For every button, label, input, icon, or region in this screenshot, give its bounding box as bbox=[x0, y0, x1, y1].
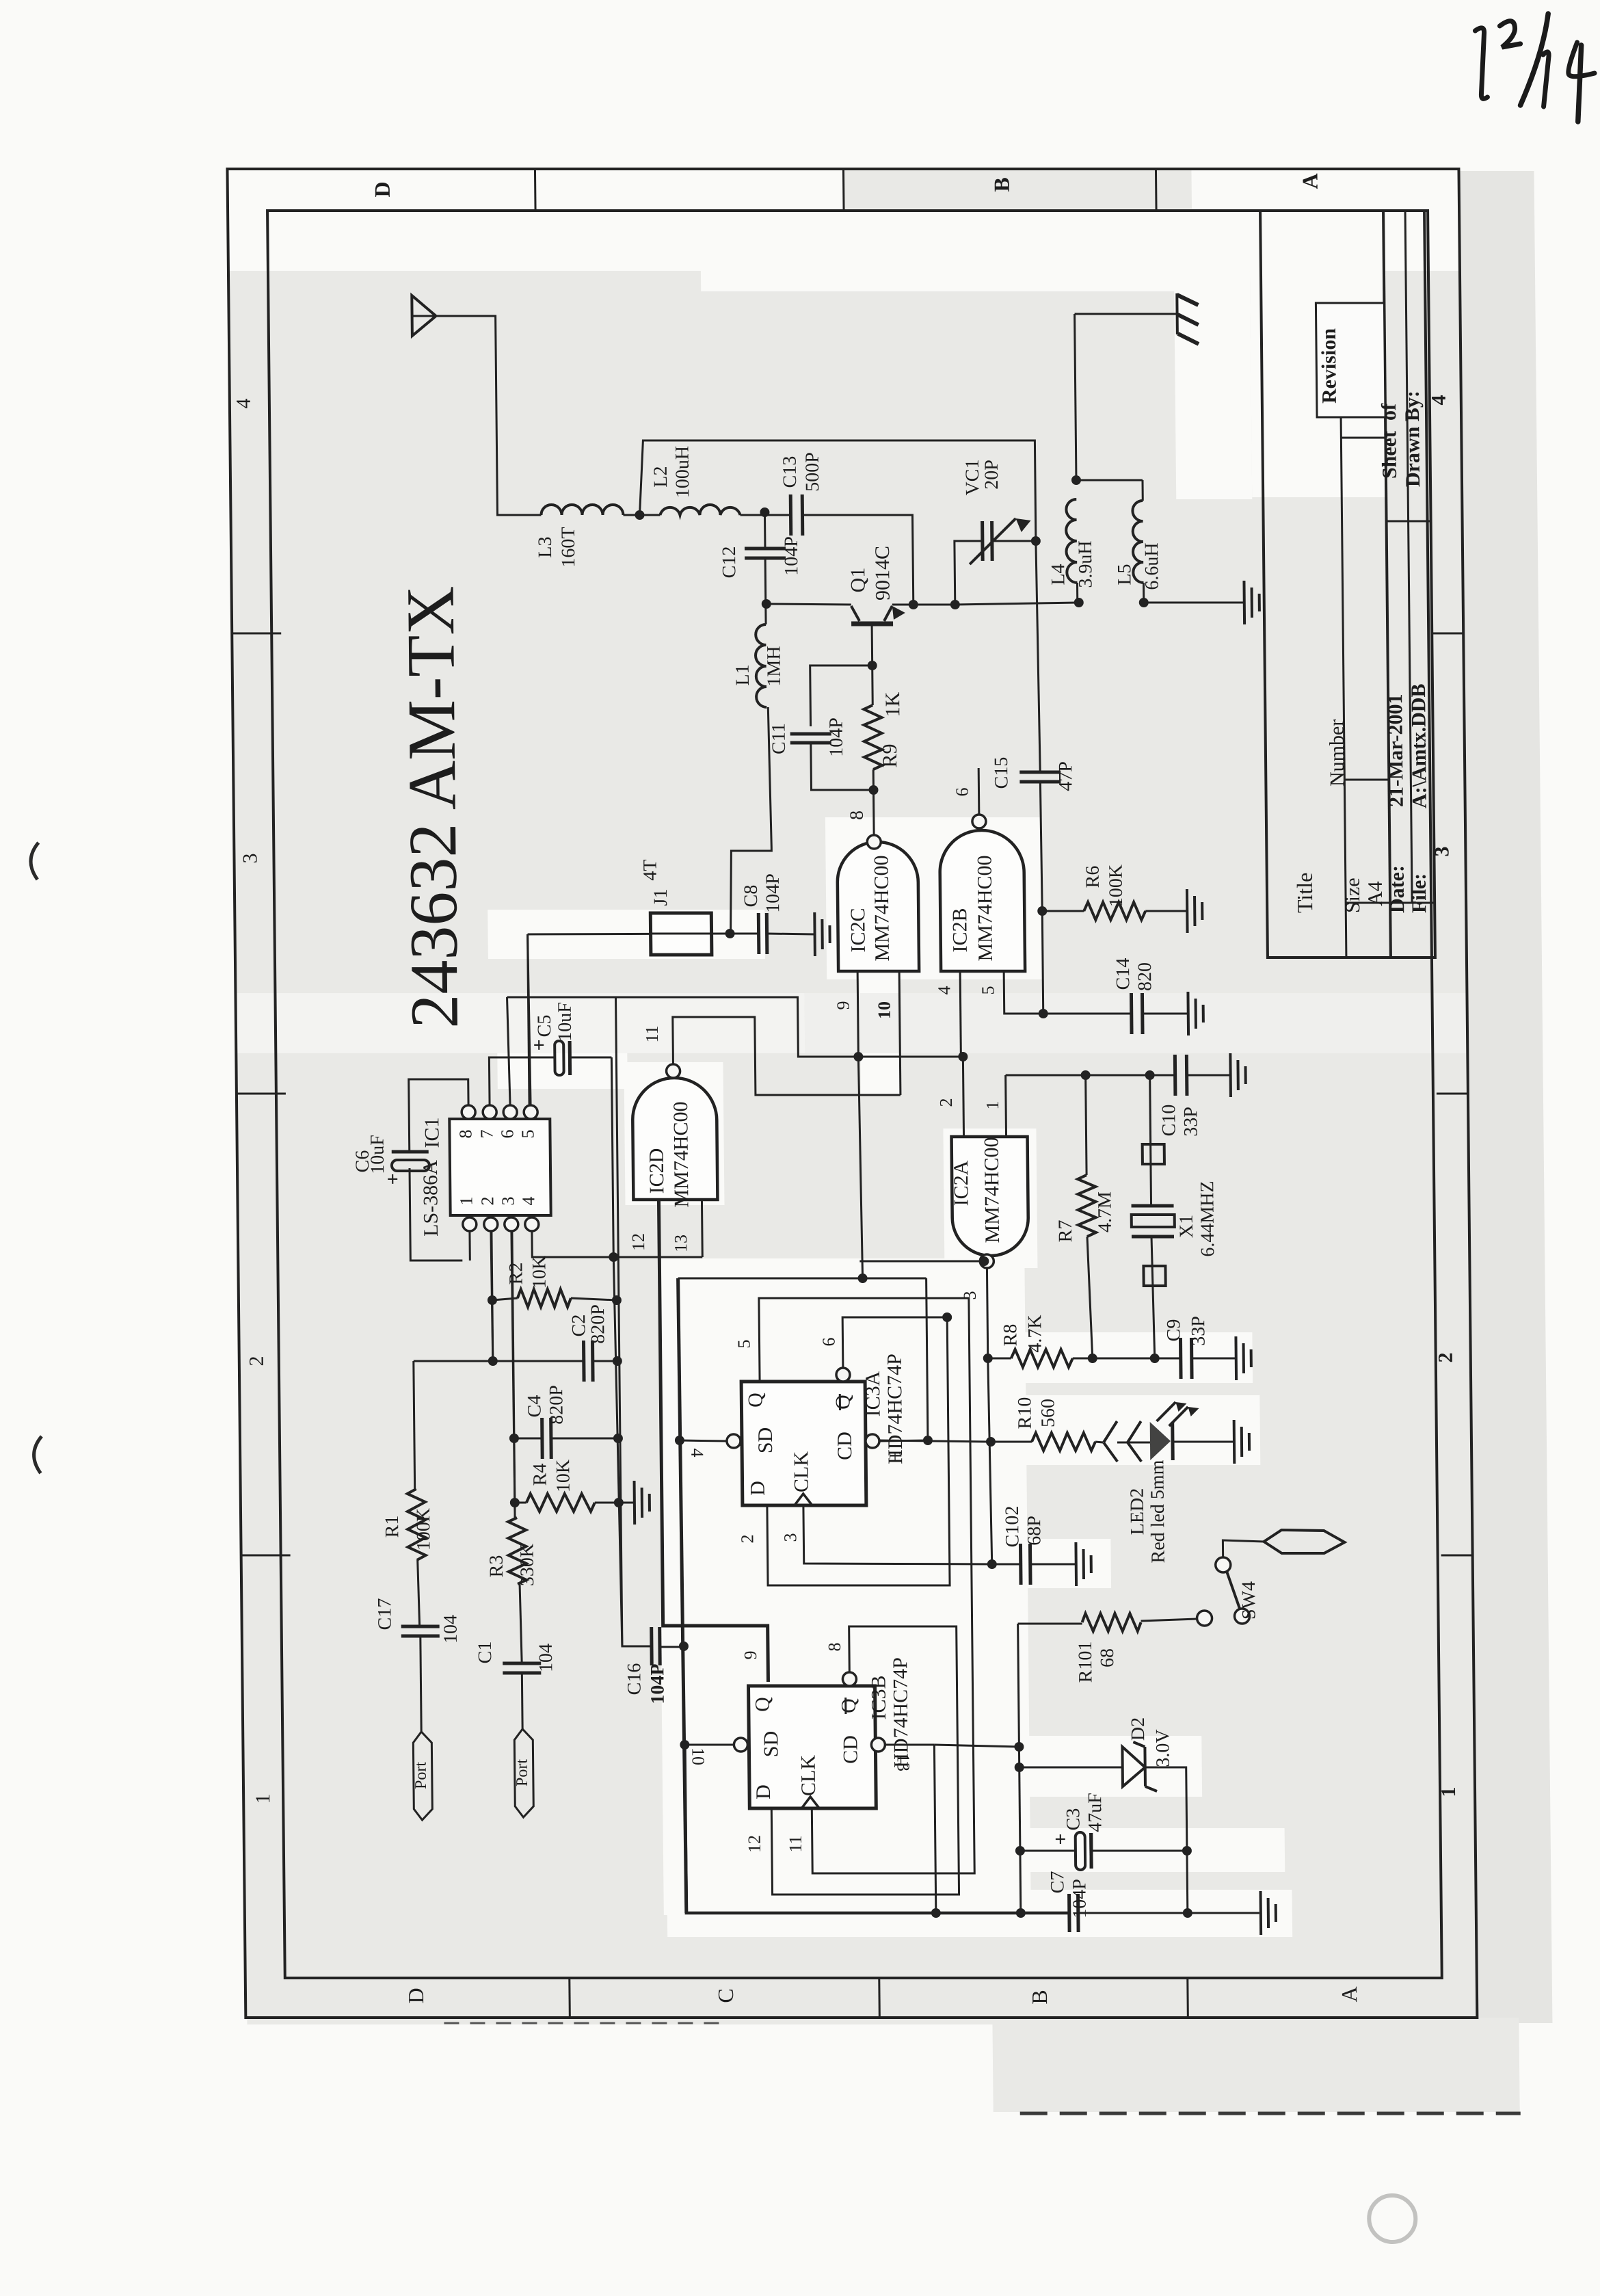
svg-text:R7: R7 bbox=[1055, 1220, 1076, 1243]
handwritten page number 12/14 bbox=[1475, 14, 1595, 122]
svg-text:IC1: IC1 bbox=[421, 1118, 443, 1148]
svg-text:11: 11 bbox=[786, 1835, 805, 1852]
svg-text:SW4: SW4 bbox=[1238, 1581, 1260, 1620]
wire to X1 top bbox=[1086, 1074, 1150, 1077]
junction VC1 drop bbox=[950, 600, 960, 609]
ground output rail bbox=[1242, 581, 1246, 624]
svg-text:9014C: 9014C bbox=[871, 546, 894, 601]
inductor L4 bbox=[1066, 499, 1078, 583]
svg-text:A4: A4 bbox=[1364, 881, 1387, 906]
title block col line B bbox=[1344, 779, 1389, 781]
ground R4 row bbox=[633, 1481, 637, 1525]
wire Q6bar loop bbox=[842, 1317, 948, 1368]
wire VC1 left lead bbox=[955, 541, 983, 605]
svg-text:C11: C11 bbox=[769, 723, 790, 754]
svg-text:Date:: Date: bbox=[1386, 865, 1409, 913]
capacitor C12 bbox=[745, 547, 786, 551]
svg-text:6.6uH: 6.6uH bbox=[1141, 542, 1163, 590]
svg-text:C5: C5 bbox=[534, 1015, 555, 1038]
wire IC2D pin12 long bbox=[658, 1200, 768, 1682]
svg-text:CLK: CLK bbox=[790, 1451, 813, 1492]
frame outer border bbox=[227, 169, 1477, 2018]
svg-text:Red led 5mm: Red led 5mm bbox=[1147, 1460, 1169, 1563]
junction cd13 bottom bbox=[931, 1908, 941, 1918]
svg-text:D: D bbox=[747, 1481, 769, 1496]
svg-text:CD: CD bbox=[834, 1431, 856, 1460]
zone divider right band bbox=[534, 169, 537, 211]
resistor R101 bbox=[1018, 1623, 1082, 1625]
svg-text:C2: C2 bbox=[568, 1315, 589, 1337]
svg-text:4.7M: 4.7M bbox=[1094, 1191, 1116, 1232]
svg-text:J1: J1 bbox=[650, 889, 671, 906]
junction R7 top bbox=[1081, 1070, 1091, 1080]
inductor L2 bbox=[660, 505, 740, 515]
bubble CD ic3b bbox=[871, 1738, 885, 1752]
junction R9 bottom bbox=[868, 785, 878, 795]
svg-text:13: 13 bbox=[671, 1235, 691, 1252]
title block row line 1 bbox=[1341, 417, 1346, 958]
svg-text:2: 2 bbox=[936, 1098, 956, 1107]
resistor R1 bbox=[414, 1361, 415, 1489]
wire CD13 bbox=[885, 1744, 934, 1746]
junction Q1 base bbox=[868, 661, 877, 670]
svg-text:10K: 10K bbox=[552, 1460, 574, 1492]
wire ic1 pin6 up bbox=[507, 997, 511, 1105]
resistor R8 bbox=[988, 1358, 1011, 1360]
ground C10 bbox=[1229, 1053, 1232, 1097]
nand gate IC2B bbox=[939, 830, 1025, 971]
junction c2 left bbox=[488, 1356, 498, 1366]
svg-text:4.7K: 4.7K bbox=[1024, 1315, 1046, 1352]
wire ic1 pin5 up bbox=[528, 934, 531, 1105]
svg-text:D: D bbox=[370, 181, 395, 197]
svg-text:C16: C16 bbox=[624, 1663, 645, 1695]
bubble Q6 ic3a bbox=[836, 1368, 850, 1382]
svg-text:Drawn By:: Drawn By: bbox=[1401, 391, 1424, 487]
capacitor C15 bbox=[1019, 771, 1061, 774]
capacitor C4 bbox=[514, 1438, 542, 1440]
wire right v down bbox=[1186, 1851, 1188, 1913]
wire IC2B pin4 stub bbox=[960, 971, 961, 1057]
wire C12 top bbox=[764, 515, 766, 549]
svg-text:1: 1 bbox=[885, 1451, 905, 1460]
junction IC2C pin9 bbox=[853, 1052, 863, 1061]
svg-text:104P: 104P bbox=[825, 717, 847, 757]
wire pin3 net bbox=[512, 1231, 515, 1518]
port connector Port1 bbox=[413, 1732, 432, 1820]
wire bottom rail left bbox=[684, 1745, 1069, 1913]
scanned page gray area bbox=[230, 271, 1478, 2024]
wire C13 to collector drop bbox=[802, 515, 913, 605]
wire c5 net down bbox=[613, 1257, 622, 1646]
svg-text:Title: Title bbox=[1292, 873, 1318, 913]
capacitor C2 bbox=[493, 1360, 584, 1362]
svg-text:7: 7 bbox=[477, 1130, 496, 1139]
svg-text:6: 6 bbox=[497, 1130, 517, 1139]
wire emitter rail bbox=[766, 604, 851, 605]
wire X1 net to C10 bbox=[1150, 1074, 1175, 1077]
junction CD1 V1 bbox=[923, 1436, 933, 1445]
antenna ANT bbox=[412, 295, 436, 336]
wire J1 row bbox=[528, 934, 730, 934]
wire Q8bar loop bbox=[770, 1626, 959, 1895]
junction r4 left bbox=[510, 1498, 520, 1507]
svg-text:LED2: LED2 bbox=[1127, 1488, 1149, 1535]
junction c7 right node bbox=[1183, 1908, 1192, 1918]
wire py1545 to IC2B pin4 bbox=[858, 1056, 961, 1058]
wire pin2 net bbox=[492, 1231, 493, 1361]
wire CD1 net bbox=[879, 1440, 989, 1442]
battery hexagon bbox=[1264, 1530, 1344, 1553]
wire set net top bbox=[678, 1278, 926, 1280]
svg-text:1: 1 bbox=[456, 1197, 476, 1206]
svg-text:4T: 4T bbox=[640, 859, 661, 880]
svg-text:IC3A: IC3A bbox=[862, 1371, 885, 1416]
svg-text:HD74HC74P: HD74HC74P bbox=[889, 1657, 913, 1768]
title block outline bbox=[1260, 211, 1435, 958]
svg-text:33P: 33P bbox=[1180, 1107, 1201, 1137]
wire SW4 to battery bbox=[1223, 1540, 1264, 1557]
svg-text:21-Mar-2001: 21-Mar-2001 bbox=[1384, 694, 1408, 807]
svg-text:47uF: 47uF bbox=[1084, 1793, 1106, 1832]
audio amp IC1 bbox=[449, 1119, 550, 1215]
wire ic1 pin4 down bbox=[532, 1231, 613, 1257]
junction R8 right bbox=[1088, 1354, 1097, 1363]
capacitor C14 bbox=[1043, 1013, 1132, 1015]
svg-text:Size: Size bbox=[1342, 878, 1365, 913]
svg-text:A:\Amtx.DDB: A:\Amtx.DDB bbox=[1407, 684, 1431, 808]
svg-text:500P: 500P bbox=[802, 452, 824, 492]
junction SD4 set net bbox=[675, 1436, 684, 1445]
svg-text:2: 2 bbox=[737, 1535, 757, 1544]
junction R8 left bbox=[983, 1354, 993, 1363]
zone divider top bbox=[232, 633, 281, 635]
junction L2/C12 bbox=[760, 507, 769, 517]
svg-text:820P: 820P bbox=[587, 1304, 609, 1344]
svg-text:C15: C15 bbox=[991, 757, 1012, 789]
ground C9 bbox=[1234, 1336, 1238, 1380]
flip-flop IC3A bbox=[741, 1382, 866, 1505]
wire cd13 drop bbox=[934, 1745, 935, 1913]
capacitor C102 bbox=[992, 1563, 1021, 1566]
junction L3/L2 bbox=[635, 510, 644, 520]
wire c3 row bbox=[1020, 1850, 1074, 1852]
switch SW4 bbox=[1216, 1557, 1231, 1572]
wire ic2c9 drop tail bbox=[926, 1278, 928, 1440]
wire C12 bottom bbox=[764, 558, 767, 604]
svg-text:File:: File: bbox=[1408, 873, 1431, 913]
svg-text:R6: R6 bbox=[1082, 866, 1104, 888]
wire IC2B pin6 stub bbox=[978, 768, 981, 815]
svg-text:160T: 160T bbox=[558, 527, 580, 567]
junction py1545 right bbox=[958, 1052, 968, 1061]
svg-text:B: B bbox=[1027, 1990, 1052, 2004]
wire C11 bottom bbox=[811, 743, 874, 790]
junction c3 left bbox=[1015, 1846, 1025, 1856]
wire J1 left riser bbox=[528, 934, 529, 1105]
svg-text:IC3B: IC3B bbox=[867, 1675, 890, 1719]
svg-text:SD: SD bbox=[754, 1427, 777, 1453]
svg-text:5: 5 bbox=[734, 1340, 754, 1349]
svg-text:330K: 330K bbox=[516, 1544, 538, 1586]
wire IC2B pin5 link bbox=[1004, 971, 1043, 1014]
title block col line A bbox=[1346, 902, 1435, 904]
junction L4 top bbox=[1071, 475, 1081, 485]
underlying sheet edge dashes bbox=[1020, 2112, 1521, 2115]
svg-text:10K: 10K bbox=[529, 1256, 550, 1289]
capacitor C1 bbox=[503, 1662, 541, 1665]
junction L4 bottom bbox=[1074, 598, 1084, 607]
ground R6 bbox=[1186, 889, 1189, 933]
svg-text:8: 8 bbox=[846, 810, 868, 820]
junction C12/L1 bbox=[762, 599, 771, 609]
svg-text:D2: D2 bbox=[1128, 1717, 1149, 1741]
zone divider left band bbox=[568, 1978, 571, 2018]
svg-text:8: 8 bbox=[455, 1130, 475, 1139]
wire L2 to C13 bbox=[740, 514, 790, 516]
junction V1 CLK bbox=[987, 1559, 997, 1569]
svg-text:6.44MHZ: 6.44MHZ bbox=[1197, 1180, 1218, 1256]
wire R6 to C14 junction bbox=[1042, 911, 1043, 1014]
wire set net vertical bbox=[678, 1278, 686, 1913]
capacitor C5 electrolytic bbox=[555, 1041, 563, 1075]
svg-text:IC2D: IC2D bbox=[645, 1148, 669, 1194]
punch hole arc upper bbox=[31, 843, 39, 880]
pin circles IC1 top bbox=[462, 1105, 475, 1119]
junction r4 right bbox=[614, 1498, 624, 1507]
svg-text:R2: R2 bbox=[505, 1263, 526, 1285]
wire d2 net vertical bbox=[1019, 1747, 1020, 1913]
capacitor C3 electrolytic bbox=[1076, 1832, 1086, 1870]
junction Q1 collector bbox=[909, 600, 918, 609]
title block row line 3 bbox=[1405, 211, 1412, 903]
resistor R6 bbox=[1042, 910, 1084, 912]
svg-text:820: 820 bbox=[1134, 962, 1156, 991]
svg-text:100K: 100K bbox=[413, 1508, 435, 1551]
svg-text:3.0V: 3.0V bbox=[1152, 1729, 1174, 1767]
svg-text:3: 3 bbox=[498, 1197, 518, 1206]
wire c5 right down bbox=[611, 1057, 613, 1257]
svg-text:R3: R3 bbox=[486, 1555, 507, 1578]
wire pin9 down long bbox=[858, 1057, 862, 1278]
svg-text:243632 AM-TX: 243632 AM-TX bbox=[392, 585, 472, 1028]
flip-flop IC3B bbox=[749, 1686, 877, 1808]
svg-text:4: 4 bbox=[232, 399, 255, 409]
svg-text:9: 9 bbox=[741, 1651, 760, 1660]
svg-text:C: C bbox=[713, 1988, 738, 2003]
svg-text:CD: CD bbox=[839, 1735, 862, 1764]
svg-text:104P: 104P bbox=[762, 873, 784, 913]
svg-text:5: 5 bbox=[978, 986, 998, 995]
junction r2 right bbox=[612, 1295, 622, 1305]
svg-text:Port: Port bbox=[412, 1762, 430, 1789]
wire c1 to port bbox=[521, 1673, 524, 1729]
svg-text:A: A bbox=[1298, 173, 1322, 189]
bubble IC2C output bbox=[867, 835, 881, 849]
wire audio net H2 bbox=[507, 997, 859, 1057]
svg-text:MM74HC00: MM74HC00 bbox=[669, 1101, 693, 1207]
svg-text:R9: R9 bbox=[879, 743, 901, 767]
ground C14 bbox=[1186, 992, 1190, 1035]
junction c4 right bbox=[613, 1434, 623, 1443]
punch hole arc lower bbox=[34, 1436, 42, 1473]
wire LED2 to ground bbox=[1173, 1441, 1234, 1443]
svg-text:20P: 20P bbox=[981, 460, 1002, 490]
capacitor C13 bbox=[789, 494, 793, 536]
capacitor C7 bbox=[1067, 1894, 1071, 1932]
junction cd13 r101net bbox=[1014, 1742, 1024, 1752]
bubble IC2B output bbox=[972, 815, 986, 828]
svg-text:Q: Q bbox=[838, 1698, 860, 1713]
zener diode D2 bbox=[1122, 1747, 1145, 1786]
wire C15 to R6 bbox=[1040, 782, 1042, 911]
svg-text:R1: R1 bbox=[382, 1516, 403, 1538]
svg-text:Q: Q bbox=[831, 1395, 854, 1410]
wire r101 net bbox=[1018, 1624, 1019, 1747]
wire collector rail right bbox=[914, 604, 955, 606]
svg-text:Revision: Revision bbox=[1318, 328, 1341, 404]
svg-text:12: 12 bbox=[745, 1835, 764, 1853]
svg-text:R4: R4 bbox=[529, 1464, 550, 1486]
svg-text:4: 4 bbox=[518, 1197, 538, 1206]
wire SD10 to set net bbox=[684, 1744, 734, 1746]
svg-text:104: 104 bbox=[535, 1644, 557, 1672]
wire V1 clock net bbox=[988, 1358, 992, 1564]
svg-text:D: D bbox=[403, 1988, 428, 2003]
svg-text:3: 3 bbox=[780, 1533, 800, 1542]
resistor R3 bbox=[508, 1518, 526, 1584]
capacitor C17 bbox=[401, 1625, 440, 1628]
svg-text:13: 13 bbox=[894, 1754, 914, 1771]
clock wedge ic3b bbox=[801, 1797, 819, 1808]
svg-text:10: 10 bbox=[875, 1001, 894, 1019]
svg-text:C14: C14 bbox=[1112, 958, 1134, 990]
title block col line D bbox=[1341, 437, 1385, 439]
wire pin1 stub bbox=[468, 1231, 470, 1261]
svg-text:560: 560 bbox=[1037, 1399, 1058, 1427]
wire Q5 loop bbox=[759, 1298, 974, 1873]
wire d2 row bbox=[1019, 1767, 1123, 1769]
svg-text:C12: C12 bbox=[719, 546, 740, 579]
svg-text:C3: C3 bbox=[1063, 1808, 1084, 1831]
resistor R7 bbox=[1086, 1075, 1086, 1175]
nand gate IC2C bbox=[837, 842, 919, 971]
svg-text:3.9uH: 3.9uH bbox=[1075, 540, 1097, 588]
junction VC1 right bbox=[1031, 536, 1041, 546]
bubble SD ic3a bbox=[727, 1434, 741, 1448]
svg-text:12: 12 bbox=[628, 1233, 648, 1251]
transistor Q1 bbox=[851, 622, 893, 626]
svg-text:L3: L3 bbox=[535, 536, 556, 557]
svg-text:10: 10 bbox=[688, 1747, 708, 1765]
svg-text:104P: 104P bbox=[781, 536, 803, 576]
svg-text:HD74HC74P: HD74HC74P bbox=[883, 1354, 907, 1464]
wire C16 to set net bbox=[660, 1646, 684, 1648]
wire r1 top bbox=[414, 1360, 493, 1362]
wire VC1 right lead bbox=[992, 540, 1036, 542]
capacitor C16 bbox=[650, 1627, 654, 1665]
svg-text:1: 1 bbox=[252, 1794, 274, 1804]
svg-text:104P: 104P bbox=[647, 1663, 669, 1704]
wire IC2C pin9 stub bbox=[857, 971, 858, 1057]
svg-text:68P: 68P bbox=[1024, 1516, 1045, 1546]
svg-text:C13: C13 bbox=[779, 456, 801, 488]
wire q6 to D2 loop bbox=[765, 1317, 950, 1585]
wire junction to L2 bbox=[639, 514, 660, 516]
frame inner border bbox=[267, 211, 1442, 1978]
svg-text:C7: C7 bbox=[1047, 1871, 1068, 1894]
svg-text:VC1: VC1 bbox=[962, 460, 984, 496]
svg-text:L4: L4 bbox=[1048, 564, 1069, 585]
capacitor C8 bbox=[730, 933, 759, 935]
wire rail to L4 bbox=[955, 603, 1079, 605]
svg-text:MM74HC00: MM74HC00 bbox=[870, 855, 894, 961]
bubble SD ic3b bbox=[734, 1738, 747, 1752]
svg-text:+: + bbox=[1050, 1833, 1072, 1845]
wire vc1 net down bbox=[1036, 541, 1040, 772]
svg-text:100K: 100K bbox=[1106, 865, 1128, 907]
wire C16 left up bbox=[616, 997, 652, 1646]
svg-text:SD: SD bbox=[760, 1731, 782, 1757]
bubble CD ic3a bbox=[866, 1434, 879, 1448]
inductor L3 bbox=[541, 505, 623, 515]
crystal X1 bbox=[1150, 1075, 1151, 1206]
svg-text:IC2C: IC2C bbox=[846, 908, 870, 952]
svg-text:Q1: Q1 bbox=[846, 568, 869, 593]
faint stamp bbox=[1369, 2195, 1416, 2242]
wire c17 to port bbox=[421, 1636, 421, 1732]
wire antenna to L3 bbox=[436, 316, 542, 515]
wire d2 to right v bbox=[1145, 1767, 1187, 1851]
svg-text:6: 6 bbox=[818, 1338, 838, 1347]
svg-text:C1: C1 bbox=[475, 1641, 496, 1664]
junction C14 bbox=[1039, 1009, 1048, 1018]
wire hatch feed bbox=[1075, 313, 1177, 315]
svg-text:6: 6 bbox=[952, 788, 972, 797]
svg-text:C8: C8 bbox=[741, 885, 762, 908]
svg-text:Q: Q bbox=[751, 1697, 774, 1712]
svg-text:B: B bbox=[989, 177, 1014, 192]
wire CLK3 horizontal bbox=[803, 1503, 992, 1564]
junction c2 right bbox=[613, 1356, 622, 1366]
wire X1 to C9 bbox=[1155, 1358, 1181, 1360]
wire L4 to L5 top bbox=[1076, 479, 1143, 481]
svg-text:4: 4 bbox=[934, 986, 954, 995]
svg-text:47P: 47P bbox=[1055, 761, 1076, 791]
svg-text:Q: Q bbox=[744, 1393, 766, 1408]
resistor R4 bbox=[515, 1502, 526, 1504]
junction r2 left bbox=[488, 1295, 497, 1305]
svg-text:2: 2 bbox=[245, 1356, 268, 1367]
svg-text:R8: R8 bbox=[1000, 1324, 1021, 1347]
wire pin8 to gate bbox=[872, 790, 875, 836]
svg-text:MM74HC00: MM74HC00 bbox=[973, 855, 997, 961]
svg-text:9: 9 bbox=[834, 1001, 853, 1010]
junction C8 node bbox=[725, 929, 735, 938]
svg-text:10uF: 10uF bbox=[555, 1002, 576, 1042]
svg-text:R10: R10 bbox=[1014, 1397, 1035, 1429]
nand gate IC2D bbox=[632, 1078, 718, 1200]
svg-text:4: 4 bbox=[687, 1449, 707, 1457]
svg-text:+: + bbox=[382, 1173, 404, 1185]
wire ic2a out short bbox=[859, 1261, 984, 1263]
wire SD4 to set net bbox=[680, 1440, 727, 1441]
wire rail to ground bbox=[1144, 602, 1244, 604]
junction X1 bottom bbox=[1150, 1354, 1160, 1363]
svg-text:820P: 820P bbox=[546, 1385, 568, 1425]
wire emitter to collector junction bbox=[892, 604, 914, 606]
wire ic1 pin2 down bbox=[491, 1231, 493, 1361]
